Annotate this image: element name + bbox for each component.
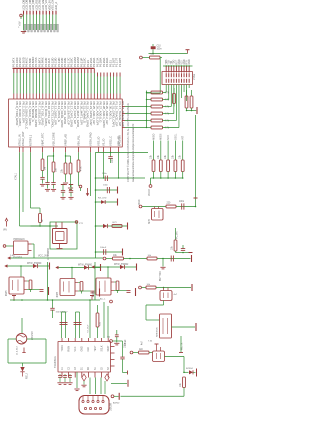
resistor R23 bbox=[174, 240, 177, 251]
supply rail bbox=[127, 223, 129, 230]
wire bbox=[175, 228, 177, 240]
wire bbox=[163, 65, 193, 67]
wire bbox=[107, 267, 109, 278]
label X1 bbox=[13, 238, 25, 259]
svg-text:C10: C10 bbox=[157, 46, 162, 48]
wire bbox=[184, 371, 189, 373]
filter FL2 bbox=[160, 291, 172, 301]
ground bbox=[127, 371, 129, 375]
wire bbox=[70, 174, 72, 187]
svg-text:4.7k: 4.7k bbox=[165, 92, 170, 95]
wire bbox=[176, 251, 191, 253]
copyright note bbox=[127, 103, 130, 182]
connector JP1 pin leads bbox=[24, 11, 57, 15]
url note bbox=[132, 123, 135, 182]
connector JP2 contacts bbox=[166, 73, 189, 83]
label PWR bbox=[3, 230, 7, 232]
wire bbox=[78, 172, 80, 186]
label RXD bbox=[139, 199, 141, 204]
U1 top pins bbox=[14, 94, 120, 100]
svg-text:www.acmecontrols.com/products/: www.acmecontrols.com/products/lpc/docume… bbox=[132, 123, 135, 182]
svg-text:1-8V: 1-8V bbox=[10, 255, 15, 257]
wire bbox=[162, 259, 164, 267]
wire bbox=[146, 301, 164, 321]
supply rail bbox=[196, 369, 198, 377]
capacitor C10 bbox=[151, 44, 156, 54]
label U4 bbox=[157, 326, 159, 337]
wire bbox=[187, 110, 197, 112]
resistor R47 bbox=[114, 267, 119, 293]
bus bar bbox=[13, 67, 95, 69]
label R25 bbox=[113, 255, 118, 257]
wire bbox=[24, 15, 57, 30]
supply rail bbox=[118, 393, 120, 400]
label C10 bbox=[157, 46, 163, 51]
svg-text:XTAL1_IN: XTAL1_IN bbox=[17, 134, 21, 146]
bus pin stubs bbox=[14, 68, 120, 76]
node VA bbox=[79, 185, 82, 191]
connector JP2 pins top bbox=[166, 66, 189, 73]
svg-text:100n: 100n bbox=[102, 173, 108, 175]
svg-text:V3_IO: V3_IO bbox=[101, 139, 105, 146]
svg-text:AGND: AGND bbox=[113, 402, 120, 405]
capacitor C9 bbox=[69, 190, 73, 196]
resistor R46 bbox=[78, 268, 83, 294]
resistors R1-R5 bbox=[152, 160, 184, 172]
label C14 bbox=[179, 201, 185, 203]
diode D1 bbox=[20, 363, 24, 377]
wire bbox=[123, 359, 128, 373]
net label bbox=[38, 256, 49, 258]
label FL1 bbox=[148, 341, 153, 343]
svg-text:RX_LED: RX_LED bbox=[98, 198, 107, 200]
transformer U4 bbox=[160, 314, 172, 338]
node RXP bbox=[130, 351, 133, 354]
wire bbox=[42, 179, 44, 183]
svg-text:SDAT: SDAT bbox=[107, 345, 110, 352]
svg-text:GND: GND bbox=[82, 346, 84, 351]
label D5 bbox=[98, 198, 107, 200]
svg-text:SCLK: SCLK bbox=[101, 345, 103, 351]
wire bbox=[53, 185, 55, 189]
svg-text:VCC: VCC bbox=[75, 346, 77, 351]
wire bbox=[90, 378, 101, 395]
node VCC3 bbox=[149, 185, 152, 188]
label 1V8 bbox=[10, 255, 15, 257]
wire bbox=[142, 57, 162, 59]
ground bbox=[21, 31, 26, 33]
label net MTW_/PWM2 bbox=[114, 264, 129, 266]
svg-text:GND: GND bbox=[189, 59, 191, 64]
capacitor C5 bbox=[51, 183, 55, 185]
wire bbox=[95, 266, 137, 268]
label OK1 bbox=[149, 219, 151, 224]
node PLC_RX bbox=[139, 286, 142, 289]
optocoupler OK6 bbox=[60, 279, 78, 296]
label R8 bbox=[81, 166, 83, 171]
connector X1 bbox=[14, 241, 32, 255]
optocoupler OK5 bbox=[9, 277, 27, 294]
wire bbox=[149, 53, 188, 55]
node JACK bbox=[3, 245, 13, 248]
supply rail bbox=[135, 288, 137, 296]
supply rail bbox=[69, 185, 73, 191]
U2 bottom pins bbox=[62, 372, 108, 378]
label C22 bbox=[125, 342, 127, 348]
wire bbox=[157, 347, 161, 351]
resistor R45 bbox=[27, 266, 32, 292]
label R6 bbox=[45, 167, 47, 170]
svg-text:4N35: 4N35 bbox=[6, 290, 8, 296]
wire bbox=[8, 265, 50, 267]
optocoupler OK1 bbox=[152, 207, 164, 221]
label C18 bbox=[103, 185, 109, 187]
svg-text:INT: INT bbox=[182, 136, 185, 141]
capacitor C8 bbox=[61, 190, 65, 196]
svg-text:VCC_3V3: VCC_3V3 bbox=[38, 256, 49, 258]
label FL2 bbox=[174, 294, 178, 296]
ground bbox=[189, 252, 193, 254]
svg-text:VBAT_RTC: VBAT_RTC bbox=[40, 133, 44, 146]
svg-text:100nF: 100nF bbox=[100, 247, 107, 249]
label TXP bbox=[107, 337, 110, 339]
label nets bbox=[142, 340, 184, 350]
wire bbox=[166, 85, 189, 128]
supply rail bbox=[49, 263, 51, 270]
supply tap bbox=[22, 348, 25, 353]
wire bbox=[47, 262, 49, 301]
wire bbox=[53, 152, 54, 162]
wire bbox=[147, 58, 161, 94]
svg-text:SFH: SFH bbox=[149, 219, 151, 224]
svg-text:SCK: SCK bbox=[167, 135, 170, 140]
wire bbox=[71, 268, 73, 279]
resistor R9 bbox=[31, 196, 42, 226]
node +5V bbox=[20, 14, 23, 19]
label net MTW_/PWM1 bbox=[78, 264, 93, 266]
node MAINS bbox=[110, 300, 113, 303]
supply rail bbox=[117, 199, 119, 206]
capacitor CC5 bbox=[27, 290, 44, 292]
svg-text:RXD: RXD bbox=[139, 199, 141, 204]
svg-text:JTAG: JTAG bbox=[193, 74, 196, 80]
resistor R20 bbox=[150, 56, 161, 59]
node BTN bbox=[103, 257, 106, 260]
wire bbox=[90, 152, 92, 196]
wire bbox=[20, 266, 22, 277]
label XTAL1 bbox=[15, 172, 18, 180]
transformer TR1 bbox=[16, 333, 27, 344]
U1 net labels bbox=[12, 57, 122, 67]
svg-text:LPC2103: LPC2103 bbox=[118, 135, 122, 146]
capacitor C24 bbox=[115, 330, 119, 343]
node TXP bbox=[110, 340, 113, 343]
IC U2 outline bbox=[58, 342, 111, 373]
capacitor C25 bbox=[171, 256, 173, 262]
wire bbox=[20, 152, 24, 208]
svg-text:PC_RX: PC_RX bbox=[177, 231, 179, 239]
label X2 bbox=[110, 402, 113, 411]
wire bbox=[53, 172, 55, 183]
wire bbox=[32, 244, 35, 258]
svg-text:AC_L: AC_L bbox=[100, 298, 106, 301]
svg-text:VSS2_C: VSS2_C bbox=[108, 136, 112, 146]
resistor R6B bbox=[52, 162, 55, 172]
wire bbox=[164, 288, 169, 291]
resistor R17 bbox=[185, 90, 188, 111]
capacitor CC7 bbox=[114, 291, 131, 293]
svg-text:VSS_IO: VSS_IO bbox=[96, 137, 100, 146]
label R20 bbox=[150, 54, 155, 56]
label MAINS bbox=[100, 298, 106, 301]
svg-text:NME0505: NME0505 bbox=[157, 326, 159, 337]
svg-text:BUTTON: BUTTON bbox=[160, 271, 162, 281]
svg-text:100nF: 100nF bbox=[125, 339, 127, 346]
ground bbox=[62, 383, 67, 385]
wire bbox=[163, 93, 179, 128]
pull-up net labels bbox=[152, 133, 184, 140]
svg-text:PE_TX: PE_TX bbox=[182, 342, 184, 350]
wire bbox=[180, 336, 182, 352]
capacitor C15 bbox=[181, 245, 185, 250]
label R29 bbox=[180, 382, 182, 387]
capacitor C14 bbox=[182, 203, 184, 209]
resistor R7 bbox=[64, 163, 67, 174]
ground bbox=[40, 184, 45, 186]
U1 right pins bbox=[122, 107, 125, 128]
svg-text:4.7k: 4.7k bbox=[165, 127, 170, 130]
label C19 bbox=[100, 247, 107, 249]
ground bbox=[67, 383, 72, 385]
capacitor C19 bbox=[74, 312, 82, 338]
svg-text:MTW_/PWM0: MTW_/PWM0 bbox=[27, 263, 42, 265]
wire bbox=[96, 152, 149, 153]
U1 bottom pin names bbox=[17, 131, 120, 146]
resistor R31 bbox=[147, 257, 157, 260]
node VIN bbox=[140, 56, 143, 59]
wire bbox=[125, 107, 147, 128]
diode D6 bbox=[103, 224, 107, 228]
wire bbox=[20, 208, 59, 227]
wire bbox=[78, 152, 80, 160]
svg-text:4.7k: 4.7k bbox=[165, 113, 170, 116]
wire bbox=[42, 152, 44, 159]
wire bbox=[153, 172, 184, 179]
wire bbox=[154, 141, 183, 161]
capacitor C4 bbox=[40, 177, 44, 179]
capacitor C21 bbox=[63, 374, 67, 382]
capacitor C17 bbox=[50, 300, 54, 318]
svg-text:TXOU: TXOU bbox=[62, 345, 64, 352]
label R23 bbox=[172, 245, 174, 250]
ground bbox=[68, 197, 73, 199]
svg-text:RXIN: RXIN bbox=[68, 346, 70, 352]
svg-text:4.7k: 4.7k bbox=[165, 99, 170, 102]
diode D2 bbox=[82, 374, 86, 385]
label TR1 bbox=[32, 331, 34, 340]
ground bbox=[57, 383, 62, 385]
supply arrow bbox=[4, 264, 7, 267]
wire bbox=[113, 341, 123, 357]
wire bbox=[21, 318, 23, 333]
label JTAG bbox=[193, 74, 196, 80]
labels R1-R5 bbox=[150, 154, 182, 159]
wire bbox=[142, 287, 147, 289]
label R31 bbox=[148, 255, 152, 257]
IC U1 outline bbox=[9, 99, 123, 147]
wire bbox=[195, 115, 197, 207]
wire bbox=[156, 287, 191, 289]
wire bbox=[149, 352, 153, 354]
svg-text:4.7k: 4.7k bbox=[165, 120, 170, 123]
svg-text:+5V: +5V bbox=[18, 21, 21, 26]
supply VCC rail bbox=[186, 50, 190, 54]
wire bbox=[65, 152, 67, 163]
label R9 bbox=[42, 219, 44, 222]
svg-text:BZX84: BZX84 bbox=[186, 368, 193, 370]
capacitor C19 bbox=[104, 249, 106, 255]
resistor R28 bbox=[139, 351, 150, 354]
svg-text:VIN: VIN bbox=[3, 230, 7, 232]
supply rail bbox=[61, 185, 65, 191]
wire bbox=[95, 201, 117, 203]
resistor R7B bbox=[69, 163, 72, 174]
capacitor C20 bbox=[58, 374, 62, 382]
wire bbox=[7, 256, 103, 259]
svg-text:VREF_AD: VREF_AD bbox=[63, 134, 67, 146]
label TXN bbox=[88, 324, 90, 333]
supply rail bbox=[90, 296, 94, 301]
resistor R29 bbox=[183, 377, 186, 388]
wire bbox=[96, 225, 128, 227]
wire bbox=[104, 302, 108, 338]
wire bbox=[47, 185, 49, 189]
svg-text:SSEL: SSEL bbox=[174, 133, 177, 140]
svg-text:TDA5051A: TDA5051A bbox=[54, 356, 57, 368]
resistor R25 bbox=[113, 257, 124, 260]
label D1 bbox=[27, 373, 29, 379]
svg-text:L1 4-613: L1 4-613 bbox=[17, 346, 19, 355]
svg-text:COPYRIGHT © 2008, ACME CONTROL: COPYRIGHT © 2008, ACME CONTROLS LTD, ALL… bbox=[127, 103, 130, 182]
ground bbox=[68, 188, 73, 190]
ground bbox=[51, 189, 56, 191]
node RXD bbox=[139, 205, 142, 208]
resistor R30 bbox=[96, 305, 99, 338]
label C16 bbox=[102, 173, 108, 175]
svg-text:CLK: CLK bbox=[88, 347, 90, 352]
supply rail bbox=[194, 197, 198, 199]
diode D5 bbox=[33, 264, 37, 268]
U1 top pin names bbox=[15, 102, 125, 130]
supply rail bbox=[179, 352, 183, 354]
label XT1 bbox=[79, 223, 84, 225]
label OK6 bbox=[57, 291, 59, 297]
supply arrow bbox=[86, 188, 89, 196]
svg-text:VCC3: VCC3 bbox=[148, 189, 151, 196]
svg-text:4.7k: 4.7k bbox=[165, 106, 170, 109]
wire bbox=[89, 299, 91, 338]
svg-text:100n: 100n bbox=[157, 48, 163, 50]
wire bbox=[96, 177, 146, 178]
capacitor C18 bbox=[60, 312, 68, 338]
capacitor C7 bbox=[108, 152, 112, 163]
wire bbox=[14, 73, 120, 94]
svg-text:RST/P1.1: RST/P1.1 bbox=[28, 134, 32, 146]
svg-text:100n: 100n bbox=[179, 201, 185, 203]
supply rail bbox=[191, 255, 193, 262]
svg-text:MOSI: MOSI bbox=[160, 133, 163, 140]
label Q1 bbox=[48, 247, 50, 260]
supply rail bbox=[100, 264, 102, 271]
resistor R8 bbox=[77, 160, 80, 172]
resistor R6 bbox=[41, 159, 44, 171]
connector JP1 body bbox=[24, 24, 58, 32]
diode D3 bbox=[105, 374, 109, 394]
capacitor C16 bbox=[105, 176, 107, 181]
wire bbox=[59, 267, 101, 269]
label C17 bbox=[56, 312, 68, 314]
wire bbox=[30, 152, 32, 196]
wire bbox=[20, 222, 78, 249]
connector X2 DB9 bbox=[79, 396, 109, 415]
resistor network R10-R15 bbox=[151, 91, 163, 129]
supply rail bbox=[196, 107, 198, 114]
ground bbox=[160, 267, 165, 269]
svg-text:1M: 1M bbox=[45, 167, 47, 170]
wire bbox=[65, 174, 67, 182]
supply rail bbox=[191, 284, 193, 291]
supply rail bbox=[122, 249, 124, 256]
resistor R18 bbox=[190, 90, 193, 111]
U2 top pins bbox=[62, 338, 108, 342]
svg-text:230V/9V: 230V/9V bbox=[32, 331, 34, 340]
supply rail bbox=[117, 187, 119, 194]
U1 bottom pins bbox=[20, 147, 119, 152]
optocoupler OK7 bbox=[96, 278, 114, 295]
svg-text:MTW_/PWM2: MTW_/PWM2 bbox=[114, 264, 129, 266]
svg-text:P1.18/T: P1.18/T bbox=[118, 58, 122, 67]
wire bbox=[95, 189, 117, 191]
svg-text:TX_OUT: TX_OUT bbox=[88, 324, 90, 333]
ground bbox=[114, 343, 119, 345]
wire bbox=[76, 372, 78, 388]
diode D7 bbox=[120, 265, 124, 269]
ground bbox=[60, 197, 65, 199]
supply rail bbox=[195, 323, 197, 331]
svg-text:V18_CORE: V18_CORE bbox=[51, 132, 55, 146]
wire bbox=[165, 357, 185, 374]
ground bbox=[45, 189, 50, 191]
svg-text:4N35: 4N35 bbox=[57, 291, 59, 297]
connector JP2 outline bbox=[162, 72, 193, 85]
wire bbox=[65, 155, 71, 163]
wire bbox=[94, 262, 96, 300]
wire bbox=[111, 383, 127, 385]
label R33 bbox=[147, 284, 151, 286]
svg-text:100n: 100n bbox=[112, 157, 114, 163]
label R22 bbox=[167, 203, 172, 205]
supply rail bbox=[136, 264, 138, 271]
wire bbox=[157, 258, 191, 260]
label OK7 bbox=[93, 291, 95, 297]
label C24 bbox=[125, 339, 127, 346]
svg-text:XTAL1: XTAL1 bbox=[15, 172, 18, 180]
wire bbox=[96, 251, 123, 253]
wire bbox=[151, 178, 183, 185]
svg-text:LED_A: LED_A bbox=[54, 2, 58, 11]
wire bbox=[121, 395, 185, 397]
filter FL1 bbox=[153, 351, 165, 362]
